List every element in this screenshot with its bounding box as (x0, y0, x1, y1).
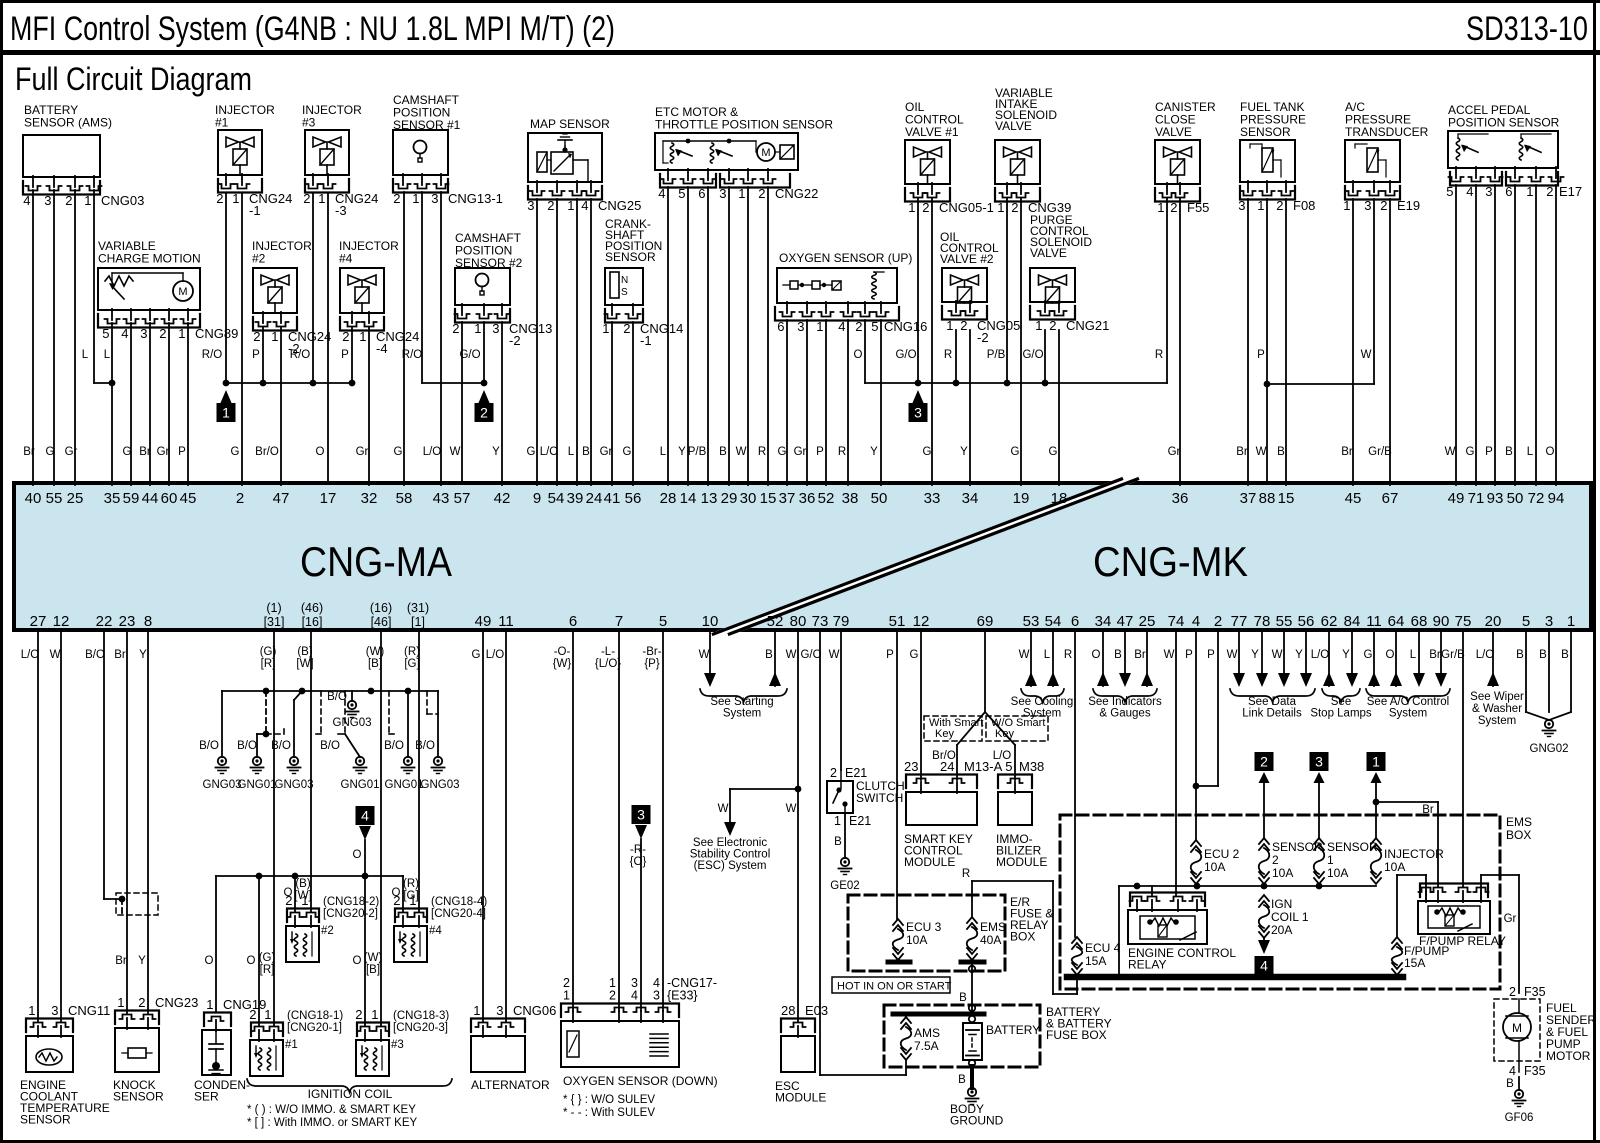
component battery (969, 1016, 975, 1022)
svg-text:73: 73 (812, 613, 829, 630)
svg-text:4: 4 (1192, 613, 1200, 630)
svg-text:68: 68 (1411, 613, 1428, 630)
svg-text:L: L (568, 446, 575, 458)
svg-text:(CNG18-4): (CNG18-4) (431, 896, 487, 908)
svg-text:EMS: EMS (980, 920, 1006, 934)
svg-text:MODULE: MODULE (904, 855, 955, 869)
marker 1 (injector power) (220, 390, 232, 404)
svg-text:Br/O: Br/O (255, 446, 279, 458)
svg-text:B: B (765, 649, 773, 661)
fuse ECU 4 15A (1072, 937, 1082, 943)
wire oil valve #1 pin2 G to pin 33 (931, 198, 933, 485)
svg-text:43: 43 (433, 490, 450, 507)
svg-text:45: 45 (1345, 490, 1362, 507)
svg-text:2: 2 (547, 198, 554, 213)
component immobilizer module (1014, 782, 1016, 793)
svg-text:M: M (178, 286, 187, 298)
svg-text:2: 2 (236, 490, 244, 507)
svg-text:10A: 10A (1204, 860, 1225, 874)
svg-text:-R-: -R- (630, 844, 646, 856)
svg-text:3: 3 (797, 319, 804, 334)
svg-text:29: 29 (721, 490, 738, 507)
svg-text:6: 6 (1071, 613, 1079, 630)
svg-text:1: 1 (318, 191, 325, 206)
svg-text:35: 35 (104, 490, 121, 507)
svg-text:[CNG20-1]: [CNG20-1] (287, 1022, 342, 1034)
svg-text:Stability Control: Stability Control (690, 849, 771, 861)
svg-text:THROTTLE POSITION SENSOR: THROTTLE POSITION SENSOR (655, 118, 833, 132)
svg-text:55: 55 (46, 490, 63, 507)
svg-text:(CNG18-3): (CNG18-3) (393, 1010, 449, 1022)
svg-text:E03: E03 (805, 1003, 828, 1018)
svg-text:79: 79 (833, 613, 850, 630)
svg-text:O: O (205, 955, 214, 967)
svg-text:VALVE: VALVE (1155, 125, 1192, 139)
wire injector #2 pin2 P to injector bus (262, 327, 264, 383)
svg-text:Gr: Gr (356, 446, 369, 458)
svg-text:CNG03: CNG03 (101, 193, 144, 208)
svg-text:Y: Y (1342, 649, 1350, 661)
svg-text:GNG01: GNG01 (341, 779, 380, 791)
svg-text:Gr: Gr (600, 446, 613, 458)
ignition coil group label (247, 1079, 452, 1092)
svg-text:5: 5 (1446, 184, 1453, 199)
svg-text:2: 2 (623, 321, 630, 336)
wire VCM pin2 Gr to pin 60 (168, 323, 170, 485)
svg-text:23: 23 (119, 613, 136, 630)
wire injector #4 pin2 P to injector bus (351, 327, 353, 383)
svg-text:Br: Br (115, 955, 127, 967)
svg-text:W: W (699, 649, 710, 661)
wire B/O to ground GNG01 fourth (407, 691, 409, 757)
svg-text:2: 2 (855, 319, 862, 334)
svg-text:2: 2 (1380, 198, 1387, 213)
svg-text:L/O: L/O (486, 649, 505, 661)
svg-text:BATTERY: BATTERY (986, 1023, 1040, 1037)
svg-text:2: 2 (1509, 985, 1516, 999)
fuse AMS 7.5A (901, 1017, 911, 1023)
wire MAP pin3 G to pin 9 (536, 199, 538, 485)
see data link details (1238, 629, 1240, 674)
svg-text:INJECTOR: INJECTOR (1384, 847, 1444, 861)
ECU connector band CNG-MA / CNG-MK (14, 483, 1591, 630)
svg-text:CNG89: CNG89 (195, 326, 238, 341)
svg-text:[W]: [W] (296, 658, 313, 670)
svg-text:23: 23 (904, 759, 918, 774)
variant box w/o smart key (986, 716, 1048, 741)
svg-text:S: S (621, 287, 628, 298)
wire oxygen up pin4 R to pin 38 (847, 320, 849, 485)
svg-text:3: 3 (44, 193, 51, 208)
svg-text:P: P (1185, 649, 1193, 661)
svg-text:G: G (394, 446, 403, 458)
svg-text:8: 8 (144, 613, 152, 630)
svg-text:5: 5 (659, 613, 667, 630)
svg-text:9: 9 (533, 490, 541, 507)
svg-text:System: System (1389, 708, 1427, 720)
svg-text:B: B (582, 446, 590, 458)
svg-text:47: 47 (1117, 613, 1134, 630)
svg-text:64: 64 (1388, 613, 1405, 630)
svg-text:-L-: -L- (601, 646, 615, 658)
svg-text:3: 3 (1315, 754, 1323, 770)
svg-text:B: B (1506, 1078, 1514, 1090)
svg-text:SENSOR: SENSOR (20, 1113, 71, 1127)
svg-text:3: 3 (140, 326, 147, 341)
svg-text:12: 12 (913, 613, 930, 630)
svg-text:MOTOR: MOTOR (1546, 1049, 1591, 1063)
svg-text:R/O: R/O (402, 349, 423, 361)
component engine coolant temperature sensor (37, 629, 39, 1021)
wire camshaft #1 pin2 G to pin 58 (403, 192, 405, 485)
svg-text:W: W (736, 446, 747, 458)
svg-text:CNG-MA: CNG-MA (300, 538, 452, 585)
svg-text:GNG03: GNG03 (203, 779, 242, 791)
svg-text:2: 2 (393, 191, 400, 206)
svg-text:RELAY: RELAY (1128, 958, 1166, 972)
svg-text:P: P (252, 349, 260, 361)
wire pin 6 R to ECU4 fuse (1074, 629, 1076, 937)
svg-text:See Wiper: See Wiper (1470, 691, 1524, 703)
svg-text:HOT IN ON OR START: HOT IN ON OR START (837, 981, 952, 993)
svg-text:OXYGEN SENSOR (DOWN): OXYGEN SENSOR (DOWN) (563, 1074, 718, 1088)
svg-text:P: P (1485, 446, 1493, 458)
svg-text:SENSOR: SENSOR (1327, 840, 1378, 854)
svg-text:42: 42 (494, 490, 511, 507)
svg-text:O: O (247, 955, 256, 967)
svg-text:67: 67 (1382, 490, 1399, 507)
svg-text:MFI Control System (G4NB : NU: MFI Control System (G4NB : NU 1.8L MPI M… (10, 10, 615, 48)
svg-text:4: 4 (121, 326, 128, 341)
svg-text:See A/C Control: See A/C Control (1367, 696, 1449, 708)
svg-text:Br: Br (1429, 649, 1441, 661)
wire clutch switch to ground GE02 (844, 813, 846, 858)
svg-text:11: 11 (498, 613, 514, 630)
svg-text:1: 1 (1327, 853, 1334, 867)
svg-text:3: 3 (1238, 198, 1245, 213)
svg-text:CHARGE MOTION: CHARGE MOTION (98, 252, 201, 266)
wire ETC pin3 B to pin 29 (728, 187, 730, 485)
wire VCM pin1 P to pin 45 (187, 323, 189, 485)
svg-text:W: W (1445, 446, 1456, 458)
wire battery sensor pin3 G to pin 55 (53, 190, 55, 485)
svg-text:Br: Br (139, 446, 151, 458)
see indicators & gauges (1102, 629, 1104, 686)
svg-text:M38: M38 (1019, 759, 1044, 774)
svg-text:3: 3 (1364, 198, 1371, 213)
fuse IGN COIL 1 20A (1259, 895, 1269, 901)
svg-text:O: O (854, 349, 863, 361)
svg-text:W: W (1164, 649, 1175, 661)
svg-text:System: System (1023, 708, 1061, 720)
svg-text:39: 39 (567, 490, 584, 507)
svg-text:5: 5 (871, 319, 878, 334)
svg-text:3: 3 (637, 807, 645, 823)
svg-text:2: 2 (342, 329, 349, 344)
svg-text:B: B (1561, 649, 1569, 661)
svg-text:O: O (353, 849, 362, 861)
wire intake solenoid pin1 P/B to valve bus (1006, 198, 1008, 383)
svg-text:53: 53 (1023, 613, 1040, 630)
svg-text:O: O (316, 446, 325, 458)
svg-text:1: 1 (816, 319, 823, 334)
svg-text:[46]: [46] (371, 615, 392, 629)
wire fuel tank pressure pin1 P joins A/C W wire to pin 88 (1266, 199, 1268, 483)
fuse F/PUMP 15A (1392, 937, 1402, 943)
svg-text:(B): (B) (295, 878, 311, 890)
svg-text:Y: Y (1251, 649, 1259, 661)
svg-text:#4: #4 (339, 252, 353, 266)
svg-text:See Electronic: See Electronic (693, 837, 767, 849)
svg-text:GNG02: GNG02 (1530, 743, 1569, 755)
svg-text:[CNG20-2]: [CNG20-2] (323, 908, 378, 920)
svg-text:1: 1 (946, 318, 953, 333)
svg-text:19: 19 (1013, 490, 1030, 507)
svg-text:W: W (450, 446, 461, 458)
svg-text:F55: F55 (1187, 200, 1209, 215)
svg-text:2: 2 (249, 1007, 256, 1022)
svg-text:3: 3 (1485, 184, 1492, 199)
svg-text:(W): (W) (366, 646, 385, 658)
svg-text:15: 15 (1278, 490, 1295, 507)
svg-text:4: 4 (23, 193, 30, 208)
svg-text:CNG21: CNG21 (1066, 318, 1109, 333)
wire oil valve #2 pin2 Y to pin 34 (969, 330, 971, 485)
wire fuel tank pressure pin2 B to pin 15 (1285, 199, 1287, 485)
svg-text:3: 3 (1545, 613, 1553, 630)
wire oxygen up pin2 O to valve bus (864, 320, 866, 383)
svg-text:13: 13 (701, 490, 718, 507)
svg-text:2: 2 (1276, 198, 1283, 213)
svg-text:#2: #2 (252, 252, 266, 266)
variant box with smart key (924, 716, 982, 741)
fuse INJECTOR 10A (1371, 838, 1381, 844)
wire coil #2 pin1 from pin (46)/[16] (310, 629, 312, 912)
svg-text:G/O: G/O (895, 349, 916, 361)
EMS fuse bus (1119, 885, 1376, 887)
svg-text:47: 47 (273, 490, 290, 507)
wire B/O to ground GNG03 fifth (437, 691, 439, 757)
svg-text:E17: E17 (1559, 184, 1582, 199)
svg-text:24: 24 (940, 759, 954, 774)
svg-text:36: 36 (799, 490, 816, 507)
wire pin 2 P joins ECU2 feed (1217, 629, 1219, 786)
wire pin 51 P to ECU3 fuse (896, 629, 898, 919)
svg-text:72: 72 (1528, 490, 1545, 507)
svg-text:34: 34 (962, 490, 979, 507)
wire pin 69 to smart key / immobilizer variants (984, 629, 986, 712)
svg-text:G: G (623, 446, 632, 458)
svg-text:GF06: GF06 (1505, 1112, 1534, 1124)
svg-text:G: G (910, 649, 919, 661)
wire Br to fuel pump relay (1376, 801, 1438, 803)
svg-text:M: M (1512, 1021, 1522, 1035)
svg-text:ECU 4: ECU 4 (1085, 941, 1121, 955)
svg-text:(46): (46) (301, 601, 323, 615)
svg-text:B/O: B/O (384, 740, 404, 752)
svg-text:#4: #4 (429, 925, 442, 937)
fuse SENSOR 2 10A (1259, 838, 1269, 844)
svg-text:* [ ] : With IMMO. or SMART K: * [ ] : With IMMO. or SMART KEY (247, 1117, 418, 1129)
svg-text:54: 54 (548, 490, 565, 507)
svg-text:2: 2 (1272, 853, 1279, 867)
svg-text:VALVE: VALVE (1030, 246, 1067, 260)
wire oxygen up pin3 Gr to pin 36 (806, 320, 808, 485)
svg-text:* ( ) : W/O IMMO. & SMART KEY: * ( ) : W/O IMMO. & SMART KEY (247, 1104, 416, 1116)
wire accel pedal pin3 P to pin 93 (1494, 185, 1496, 485)
svg-text:* - - : With SULEV: * - - : With SULEV (563, 1107, 655, 1119)
svg-text:Link Details: Link Details (1242, 708, 1302, 720)
see cooling system (1030, 629, 1032, 686)
wire EMS fuse to battery bus (971, 960, 973, 1013)
svg-text:71: 71 (1468, 490, 1485, 507)
svg-text:{W}: {W} (553, 658, 572, 670)
wire coil #3 pin1 from pin (16)/[46] (380, 629, 382, 1026)
marker 3 to oxygen sensor down (632, 805, 651, 824)
svg-text:MODULE: MODULE (996, 855, 1047, 869)
svg-text:SENSOR: SENSOR (1240, 125, 1291, 139)
svg-text:{P}: {P} (644, 658, 660, 670)
wire accel pedal pin4 G to pin 71 (1475, 185, 1477, 485)
svg-text:VALVE: VALVE (995, 119, 1032, 133)
svg-text:6: 6 (777, 319, 784, 334)
wire ETC pin1 W to pin 30 (747, 187, 749, 485)
component condenser (215, 1020, 217, 1031)
svg-text:22: 22 (96, 613, 113, 630)
svg-text:1: 1 (84, 193, 91, 208)
svg-text:B/O: B/O (85, 649, 105, 661)
marker 1 to injector fuse (1367, 752, 1386, 771)
svg-text:Br: Br (114, 649, 126, 661)
svg-text:See Starting: See Starting (710, 696, 773, 708)
svg-text:System: System (1478, 715, 1516, 727)
wire injector #4 pin1 Gr to pin 32 (368, 327, 370, 485)
hot in on or start label (832, 977, 950, 993)
svg-text:[B]: [B] (368, 658, 382, 670)
component alternator (482, 629, 484, 1022)
svg-text:36: 36 (1172, 490, 1189, 507)
svg-text:1: 1 (738, 186, 745, 201)
svg-text:25: 25 (67, 490, 84, 507)
svg-text:-3: -3 (335, 203, 347, 218)
svg-text:12: 12 (53, 613, 70, 630)
svg-text:CNG-MK: CNG-MK (1093, 538, 1248, 585)
svg-text:Br: Br (1134, 649, 1146, 661)
svg-text:2: 2 (1170, 200, 1177, 215)
svg-text:See Indicators: See Indicators (1088, 696, 1162, 708)
marker 4 from ignition coil fuse (1255, 956, 1274, 975)
svg-text:1: 1 (359, 329, 366, 344)
wire MAP pin1 L to pin 39 (576, 199, 578, 485)
svg-text:Y: Y (139, 649, 147, 661)
svg-text:R: R (758, 446, 766, 458)
svg-text:Gr: Gr (794, 446, 807, 458)
svg-text:-4: -4 (376, 341, 388, 356)
svg-text:B: B (1516, 649, 1524, 661)
wire accel pedal pin5 W to pin 49 (1455, 185, 1457, 485)
svg-text:G/O: G/O (800, 649, 821, 661)
svg-text:L: L (660, 446, 667, 458)
svg-text:1: 1 (1157, 200, 1164, 215)
svg-text:75: 75 (1455, 613, 1472, 630)
svg-text:System: System (723, 708, 761, 720)
svg-text:1: 1 (1567, 613, 1575, 630)
svg-text:Br: Br (1422, 804, 1434, 816)
svg-text:58: 58 (396, 490, 413, 507)
svg-text:55: 55 (1276, 613, 1293, 630)
svg-text:{E33}: {E33} (667, 989, 698, 1003)
svg-text:2: 2 (960, 318, 967, 333)
wire VCM pin3 Br to pin 44 (149, 323, 151, 485)
svg-text:10: 10 (702, 613, 719, 630)
svg-text:* { } : W/O SULEV: * { } : W/O SULEV (563, 1094, 655, 1106)
svg-text:R: R (838, 446, 846, 458)
wire ETC pin5 Y to pin 14 (687, 187, 689, 485)
svg-text:G: G (1049, 446, 1058, 458)
ignition coil supply bus (216, 875, 403, 877)
svg-text:Y: Y (492, 446, 500, 458)
svg-text:CNG06: CNG06 (513, 1003, 556, 1018)
svg-text:B: B (834, 836, 842, 848)
svg-text:50: 50 (1507, 490, 1524, 507)
svg-text:1: 1 (206, 997, 213, 1012)
wire to condenser (215, 876, 217, 1011)
svg-text:1: 1 (1257, 198, 1264, 213)
wire VCM pin4 G to pin 59 (130, 323, 132, 485)
svg-text:EMS: EMS (1506, 815, 1532, 829)
wire battery sensor pin2 Gr to pin 25 (74, 190, 76, 485)
svg-text:37: 37 (1240, 490, 1257, 507)
svg-text:F35: F35 (1524, 985, 1546, 999)
svg-text:W: W (1272, 649, 1283, 661)
svg-text:-1: -1 (640, 333, 652, 348)
svg-text:CNG23: CNG23 (155, 995, 198, 1010)
component ignition coil #3 (364, 876, 366, 1026)
svg-text:40: 40 (25, 490, 42, 507)
svg-text:CNG05-1: CNG05-1 (939, 200, 994, 215)
svg-text:CNG13-1: CNG13-1 (448, 191, 503, 206)
svg-text:Gr: Gr (157, 446, 170, 458)
svg-text:L: L (1044, 649, 1051, 661)
svg-text:[CNG20-3]: [CNG20-3] (393, 1022, 448, 1034)
component engine control relay (1136, 900, 1138, 911)
svg-text:69: 69 (977, 613, 994, 630)
svg-text:(31): (31) (407, 601, 429, 615)
svg-text:P: P (178, 446, 186, 458)
svg-text:G: G (527, 446, 536, 458)
svg-text:(CNG18-2): (CNG18-2) (323, 896, 379, 908)
wire crankshaft pin1 Gr to pin 41 (611, 322, 613, 485)
svg-text:W: W (829, 649, 840, 661)
svg-text:(1): (1) (266, 601, 281, 615)
wire B/O to ground GNG01 (265, 691, 267, 734)
svg-text:N: N (621, 275, 628, 286)
wire injector #2 pin1 Br/O to pin 47 (280, 327, 282, 485)
svg-text:6: 6 (698, 186, 705, 201)
svg-text:Key: Key (935, 728, 954, 740)
svg-text:L/O: L/O (21, 649, 40, 661)
svg-text:1: 1 (301, 893, 308, 908)
svg-text:CNG25: CNG25 (598, 198, 641, 213)
wire accel pedal pin2 O to pin 94 (1555, 185, 1557, 485)
svg-text:5: 5 (1522, 613, 1530, 630)
marker 4 (ignition coil feed) (356, 806, 375, 825)
svg-text:52: 52 (818, 490, 835, 507)
svg-text:3: 3 (431, 191, 438, 206)
svg-text:P: P (816, 446, 824, 458)
ignition ground network (222, 690, 438, 692)
svg-text:2: 2 (922, 200, 929, 215)
